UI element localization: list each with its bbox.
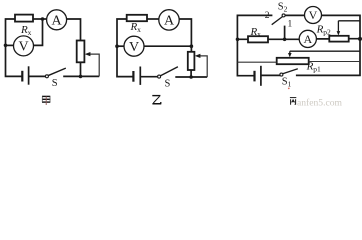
wire: top-left corner to resistor Rx <box>6 19 16 45</box>
svg-text:x: x <box>137 25 141 34</box>
rheostat wiper arrow <box>199 56 207 77</box>
node: middle wire left <box>236 38 240 42</box>
svg-text:x: x <box>28 28 32 37</box>
svg-text:anfen5.com: anfen5.com <box>297 97 343 108</box>
svg-text:1: 1 <box>288 20 293 30</box>
wire: voltmeter branch left <box>6 44 14 46</box>
wire: contact 1 stub down to middle wire <box>284 26 286 40</box>
svg-text:A: A <box>164 14 175 29</box>
svg-text:S: S <box>165 78 171 89</box>
wire: top-left corner / left vertical <box>237 15 272 75</box>
svg-text:V: V <box>309 8 318 22</box>
node: middle wire right <box>358 37 362 41</box>
label 甲 (drawn) <box>42 96 50 105</box>
wire: rheostat bottom stem <box>80 62 82 76</box>
voltmeter V1 <box>14 36 34 56</box>
node on left wire <box>115 44 119 48</box>
node at rheostat bottom <box>79 75 83 79</box>
svg-text:2: 2 <box>265 11 270 21</box>
battery cell <box>21 71 23 82</box>
battery cell <box>132 71 134 82</box>
switch S1 arm <box>282 69 298 74</box>
wire: switch to bottom-right corner <box>175 76 207 78</box>
wire: R_p1 left to left vertical <box>237 61 276 63</box>
svg-text:2: 2 <box>284 5 288 14</box>
node on left wire (voltmeter tap) <box>4 44 8 48</box>
rheostat wiper arrow <box>89 54 99 76</box>
svg-text:A: A <box>303 32 312 46</box>
R_p1 wiper arrow (from right vertical) <box>290 51 360 53</box>
switch S <box>160 67 178 76</box>
resistor R_x (box) <box>248 36 268 42</box>
node at voltmeter right <box>190 44 194 48</box>
switch S1 pivot <box>280 73 283 76</box>
resistor R_x (box) <box>15 15 33 22</box>
node: contact 1 joins middle wire <box>283 38 287 42</box>
ammeter A3 <box>299 30 316 47</box>
wire: ammeter right, corner down to rheostat <box>180 19 192 52</box>
battery cell <box>253 71 255 82</box>
switch S2 pivot <box>282 14 285 17</box>
wire: rheostat bottom stem <box>190 70 192 77</box>
wire: left vertical lower part <box>117 46 133 76</box>
switch S2 arm <box>272 16 283 24</box>
rheostat (vertical slide) <box>188 52 195 70</box>
resistor R_x (box) <box>127 15 147 21</box>
red speck <box>288 88 290 90</box>
wire: resistor to ammeter <box>33 18 46 20</box>
node at rheostat bottom <box>189 75 193 79</box>
ammeter A2 <box>159 10 179 30</box>
wire: switch S2 pivot to voltmeter <box>285 14 305 16</box>
R_p2 wiper arrow (from right vertical) <box>338 21 360 32</box>
svg-text:x: x <box>257 30 261 39</box>
rheostat R_p2 (box) <box>329 36 348 42</box>
wire: R_p1 right to right vertical <box>309 61 360 63</box>
svg-text:V: V <box>129 40 139 55</box>
label 丙 (drawn) <box>290 98 296 105</box>
wire: ammeter to top-right corner, down to rheostat <box>67 19 81 41</box>
wire: resistor to ammeter <box>147 18 159 20</box>
wire: voltmeter to top-right corner, right vertical down <box>296 15 360 75</box>
wire: top-left corner to resistor <box>117 19 127 46</box>
wire: voltmeter branch right up to node <box>34 19 43 45</box>
wire: battery to switch <box>29 75 46 77</box>
voltmeter V2 <box>124 36 144 56</box>
svg-text:A: A <box>52 14 63 29</box>
rheostat R_p1 (box) <box>277 58 309 64</box>
svg-text:S: S <box>52 78 58 89</box>
svg-text:p1: p1 <box>313 64 321 73</box>
voltmeter V3 <box>305 7 322 24</box>
wire: voltmeter branch left <box>117 45 124 47</box>
label 乙 (drawn) <box>152 96 161 104</box>
wire: voltmeter to node right <box>144 45 192 47</box>
switch S <box>48 68 66 76</box>
svg-text:1: 1 <box>288 80 292 89</box>
wire: battery to switch <box>140 76 157 78</box>
svg-text:V: V <box>18 40 28 55</box>
wire: middle row <box>237 38 360 41</box>
rheostat (vertical slide) <box>77 41 85 63</box>
wire: left vertical lower part <box>6 45 23 76</box>
ammeter A1 <box>47 10 67 30</box>
wire: switch to bottom-right <box>63 75 99 77</box>
node (dot) before ammeter <box>41 17 45 21</box>
wire: battery to switch S1 <box>261 74 280 76</box>
